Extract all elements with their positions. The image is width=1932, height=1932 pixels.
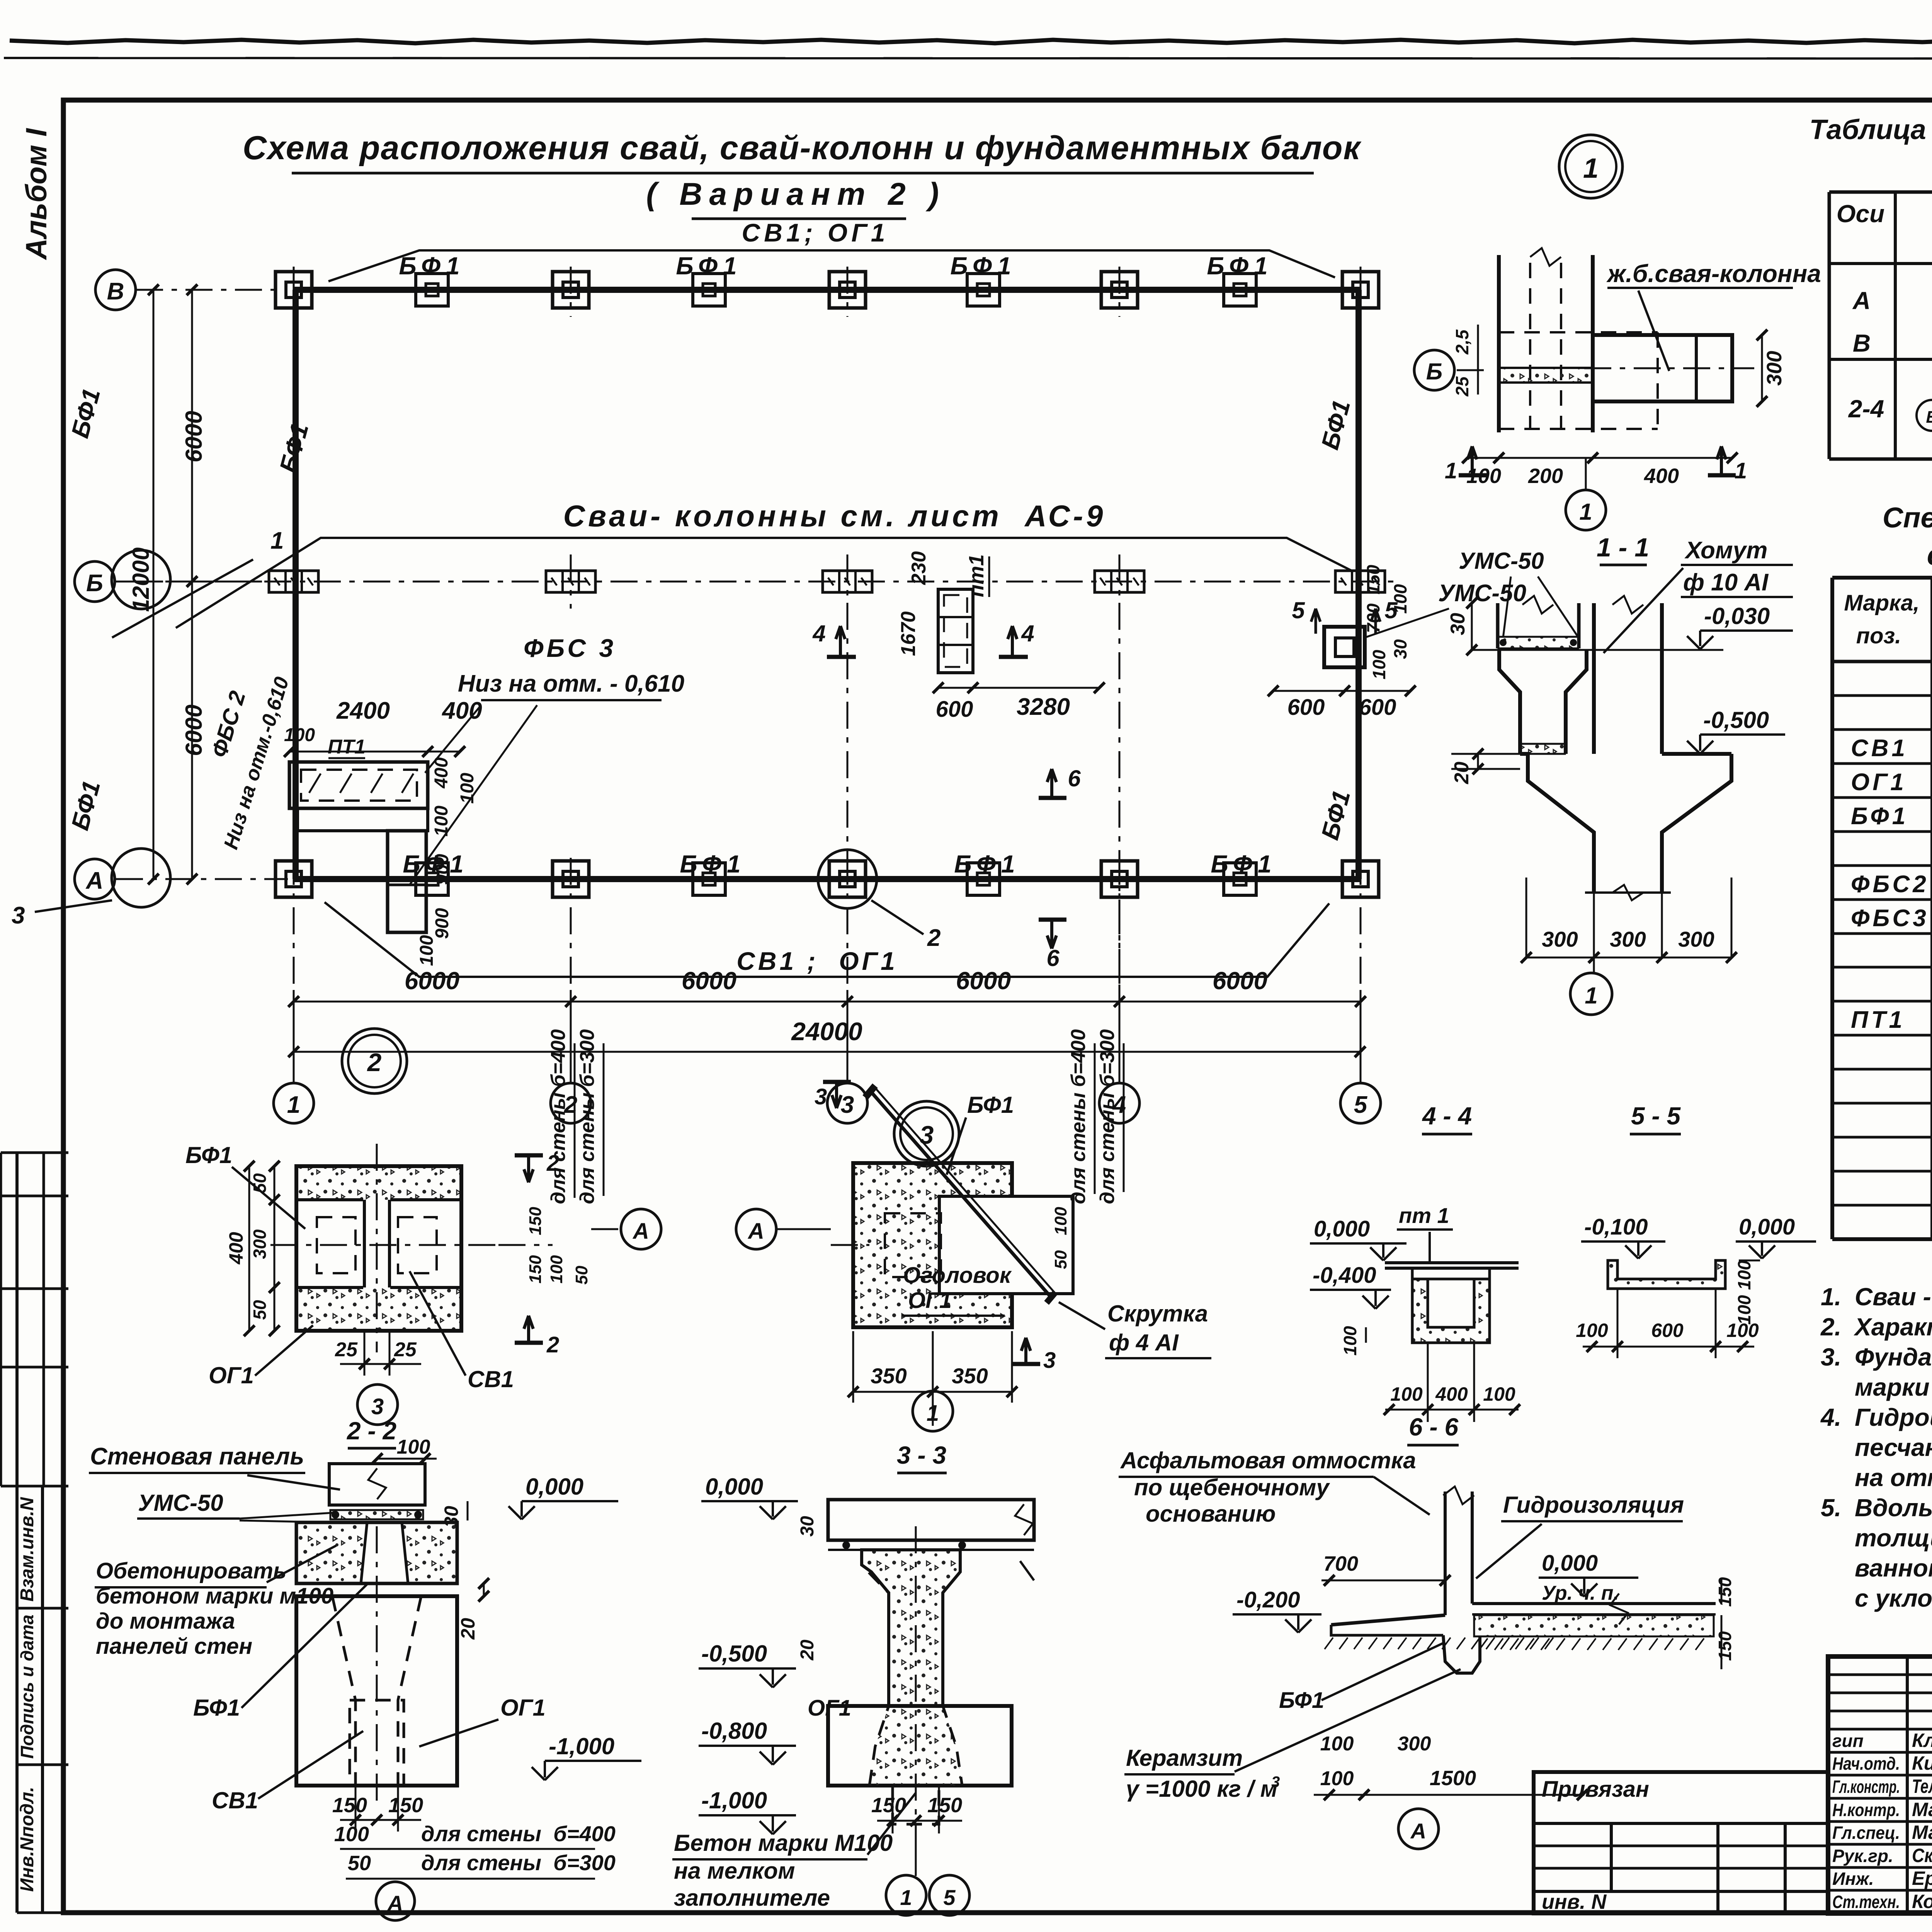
svg-text:ОГ1: ОГ1 — [500, 1695, 546, 1721]
svg-text:Низ на отм. - 0,610: Низ на отм. - 0,610 — [458, 670, 684, 697]
svg-text:А: А — [747, 1219, 764, 1244]
svg-text:900: 900 — [432, 854, 452, 885]
svg-text:Б: Б — [1926, 408, 1932, 427]
svg-text:0,000: 0,000 — [526, 1474, 583, 1500]
svg-text:ОГ1: ОГ1 — [1851, 769, 1907, 796]
svg-text:25: 25 — [335, 1338, 358, 1361]
svg-text:А: А — [85, 867, 104, 894]
svg-text:150: 150 — [526, 1207, 545, 1235]
svg-text:20: 20 — [457, 1618, 479, 1640]
svg-text:2: 2 — [927, 925, 940, 951]
svg-text:1670: 1670 — [897, 611, 920, 656]
svg-text:гип: гип — [1832, 1731, 1864, 1751]
svg-text:Клейн: Клейн — [1912, 1730, 1932, 1751]
svg-text:с уклоном 0 , 03 .: с уклоном 0 , 03 . — [1855, 1584, 1932, 1612]
svg-text:300: 300 — [1763, 351, 1786, 386]
svg-text:50: 50 — [1051, 1250, 1070, 1269]
svg-text:100: 100 — [1320, 1733, 1354, 1755]
svg-text:Сваи- колонны см. лист АС-9: Сваи- колонны см. лист АС-9 — [563, 499, 1106, 533]
svg-text:150: 150 — [1715, 1577, 1735, 1607]
svg-text:БФ1: БФ1 — [680, 850, 746, 878]
svg-text:5 - 5: 5 - 5 — [1631, 1102, 1681, 1130]
svg-text:Марков: Марков — [1912, 1799, 1932, 1820]
svg-text:Нач.отд.: Нач.отд. — [1832, 1753, 1900, 1774]
svg-text:30: 30 — [1390, 639, 1410, 659]
svg-text:150: 150 — [871, 1794, 906, 1817]
svg-text:БФ1: БФ1 — [967, 1092, 1014, 1118]
svg-text:5: 5 — [943, 1885, 956, 1910]
svg-text:24000: 24000 — [791, 1017, 862, 1046]
svg-text:4.: 4. — [1820, 1403, 1841, 1431]
svg-text:Альбом I: Альбом I — [20, 128, 53, 260]
svg-text:Инж.: Инж. — [1832, 1869, 1874, 1889]
svg-text:марки 50 , толщиной 20 мм.: марки 50 , толщиной 20 мм. — [1855, 1373, 1932, 1401]
svg-text:100: 100 — [1726, 1320, 1759, 1341]
svg-text:150: 150 — [927, 1794, 962, 1817]
svg-text:Подпись и дата: Подпись и дата — [17, 1615, 37, 1759]
svg-text:100: 100 — [1390, 1383, 1423, 1405]
svg-text:20: 20 — [797, 1639, 818, 1661]
svg-text:БФ1: БФ1 — [1211, 850, 1277, 878]
svg-text:100: 100 — [284, 725, 315, 745]
svg-text:Гл.спец.: Гл.спец. — [1832, 1823, 1900, 1843]
svg-text:Спецификация элементов к схе: Спецификация элементов к схеме расположе… — [1883, 502, 1932, 534]
svg-text:Схема расположения свай, свай-: Схема расположения свай, свай-колонн и ф… — [243, 129, 1362, 167]
svg-text:300: 300 — [1678, 927, 1714, 951]
svg-text:150: 150 — [332, 1794, 367, 1817]
svg-text:1: 1 — [1735, 458, 1747, 483]
svg-text:ПТ1: ПТ1 — [328, 736, 366, 758]
svg-text:Оголовок: Оголовок — [903, 1263, 1012, 1288]
svg-text:50: 50 — [250, 1300, 270, 1320]
svg-text:3: 3 — [1043, 1348, 1056, 1373]
svg-text:6000: 6000 — [1213, 967, 1267, 995]
svg-text:Гидроизоляцию для панелей выпо: Гидроизоляцию для панелей выполнить из с… — [1855, 1403, 1932, 1431]
svg-text:2400: 2400 — [336, 697, 390, 724]
svg-text:4: 4 — [812, 621, 825, 646]
svg-text:Б: Б — [86, 570, 103, 597]
svg-text:Н.контр.: Н.контр. — [1832, 1800, 1900, 1820]
svg-text:3: 3 — [841, 1092, 854, 1118]
svg-text:100: 100 — [334, 1823, 369, 1846]
svg-text:600: 600 — [1651, 1320, 1684, 1341]
svg-text:2-4: 2-4 — [1848, 395, 1884, 423]
svg-text:ОГ1: ОГ1 — [808, 1696, 851, 1721]
svg-text:150: 150 — [1715, 1631, 1735, 1661]
svg-text:300: 300 — [1542, 927, 1578, 951]
svg-text:УМС-50: УМС-50 — [1438, 580, 1526, 607]
svg-text:6000: 6000 — [181, 704, 207, 756]
svg-text:4: 4 — [1021, 621, 1034, 646]
svg-text:20: 20 — [1451, 762, 1473, 784]
svg-text:свай, свай-колонн и фундамен: свай, свай-колонн и фундаментных балок — [1927, 539, 1932, 571]
svg-text:СВ1: СВ1 — [1851, 735, 1908, 762]
svg-text:Гл.констр.: Гл.констр. — [1832, 1777, 1900, 1797]
svg-text:5.: 5. — [1821, 1494, 1841, 1522]
svg-text:В: В — [1853, 329, 1871, 357]
svg-text:1: 1 — [1579, 499, 1592, 525]
svg-text:на мелком: на мелком — [674, 1858, 795, 1884]
svg-text:100: 100 — [1369, 650, 1389, 679]
svg-text:БФ1: БФ1 — [1279, 1688, 1324, 1713]
svg-text:А: А — [387, 1891, 403, 1915]
svg-text:3: 3 — [1271, 1774, 1280, 1791]
svg-text:Б: Б — [1426, 359, 1442, 384]
svg-text:150: 150 — [526, 1255, 545, 1284]
svg-text:100: 100 — [1340, 1326, 1360, 1355]
svg-text:Привязан: Привязан — [1542, 1777, 1649, 1802]
svg-text:-0,100: -0,100 — [1584, 1214, 1648, 1240]
svg-text:0,000: 0,000 — [1314, 1216, 1370, 1242]
svg-text:ПТ1: ПТ1 — [1851, 1007, 1905, 1033]
svg-text:Коптева: Коптева — [1912, 1891, 1932, 1912]
svg-text:6000: 6000 — [682, 967, 736, 995]
svg-text:2: 2 — [367, 1048, 382, 1077]
svg-text:Теляковский: Теляковский — [1912, 1776, 1932, 1797]
svg-text:БФ1: БФ1 — [399, 252, 465, 280]
svg-text:СВ1: СВ1 — [212, 1787, 258, 1813]
svg-text:25: 25 — [394, 1338, 417, 1361]
svg-text:основанию: основанию — [1146, 1501, 1276, 1527]
svg-text:Обетонировать: Обетонировать — [96, 1558, 286, 1583]
svg-text:Ст.техн.: Ст.техн. — [1832, 1892, 1900, 1912]
svg-text:50: 50 — [572, 1265, 591, 1284]
svg-text:Инв.Nподл.: Инв.Nподл. — [17, 1787, 37, 1892]
svg-text:1: 1 — [1445, 458, 1457, 483]
svg-text:100: 100 — [1390, 584, 1410, 614]
svg-text:ванном щебеночном основании: ванном щебеночном основании толщиной 100… — [1855, 1554, 1932, 1582]
svg-text:ФБС 3: ФБС 3 — [524, 634, 616, 662]
svg-text:6000: 6000 — [956, 967, 1011, 995]
svg-text:3: 3 — [920, 1121, 934, 1149]
svg-text:5: 5 — [1292, 597, 1305, 623]
svg-text:100: 100 — [457, 773, 478, 804]
svg-text:Ермакова: Ермакова — [1912, 1867, 1932, 1889]
svg-text:600: 600 — [936, 697, 973, 722]
svg-text:бетоном марки м100: бетоном марки м100 — [96, 1583, 333, 1609]
svg-text:Хомут: Хомут — [1684, 537, 1767, 564]
svg-text:Гидроизоляция: Гидроизоляция — [1503, 1492, 1684, 1518]
svg-text:В: В — [107, 278, 124, 305]
svg-text:ф 4 АI: ф 4 АI — [1109, 1330, 1179, 1355]
svg-text:по щебеночному: по щебеночному — [1134, 1475, 1330, 1500]
svg-text:100: 100 — [1483, 1383, 1515, 1405]
svg-text:Марков: Марков — [1912, 1821, 1932, 1843]
svg-text:2.: 2. — [1820, 1313, 1841, 1341]
svg-text:600: 600 — [1359, 695, 1396, 720]
svg-text:100: 100 — [417, 935, 437, 966]
svg-text:100: 100 — [1734, 1260, 1754, 1290]
svg-text:200: 200 — [1528, 464, 1563, 488]
svg-text:3 - 3: 3 - 3 — [897, 1441, 946, 1469]
svg-text:Скобликов: Скобликов — [1912, 1845, 1932, 1866]
svg-text:150: 150 — [1363, 565, 1383, 594]
svg-text:Сваи - колонны см. лист АС -: Сваи - колонны см. лист АС - 9 . — [1855, 1283, 1932, 1311]
svg-text:пт 1: пт 1 — [1399, 1203, 1449, 1228]
svg-text:3: 3 — [815, 1084, 827, 1109]
svg-text:БФ1: БФ1 — [193, 1695, 240, 1721]
svg-text:0,000: 0,000 — [1542, 1551, 1598, 1576]
svg-text:песчаного раствора марки 100 с: песчаного раствора марки 100 состава 1 :… — [1855, 1434, 1932, 1461]
svg-text:12000: 12000 — [128, 548, 154, 612]
svg-text:для стены б=300: для стены б=300 — [1096, 1029, 1119, 1204]
svg-text:-0,400: -0,400 — [1313, 1263, 1376, 1288]
svg-text:ФБС2: ФБС2 — [1851, 871, 1929, 898]
svg-text:100: 100 — [1320, 1767, 1354, 1790]
svg-text:230: 230 — [908, 551, 930, 585]
svg-text:Характеристики грунта основани: Характеристики грунта основания даны на … — [1854, 1313, 1932, 1341]
svg-text:Взам.инв.N: Взам.инв.N — [17, 1497, 37, 1602]
svg-text:3: 3 — [12, 902, 25, 929]
svg-text:1: 1 — [1585, 983, 1597, 1009]
svg-text:50: 50 — [348, 1852, 371, 1875]
svg-text:Керамзит: Керамзит — [1126, 1745, 1243, 1771]
svg-text:400: 400 — [1435, 1383, 1468, 1405]
svg-text:30: 30 — [797, 1516, 818, 1537]
svg-text:( Вариант 2 ): ( Вариант 2 ) — [646, 177, 946, 212]
svg-text:пт1: пт1 — [965, 554, 988, 597]
svg-text:300: 300 — [250, 1229, 270, 1259]
svg-text:100: 100 — [431, 806, 452, 837]
svg-text:2,5: 2,5 — [1452, 329, 1472, 355]
svg-text:БФ1: БФ1 — [950, 252, 1016, 280]
svg-text:БФ1: БФ1 — [676, 252, 742, 280]
svg-text:400: 400 — [1644, 464, 1679, 488]
svg-text:поз.: поз. — [1856, 623, 1901, 648]
svg-text:γ =1000 кг / м: γ =1000 кг / м — [1126, 1776, 1277, 1802]
svg-text:3.: 3. — [1821, 1343, 1841, 1371]
svg-text:3280: 3280 — [1017, 694, 1070, 720]
svg-text:СВ1: СВ1 — [468, 1366, 514, 1392]
svg-text:до монтажа: до монтажа — [96, 1609, 235, 1634]
svg-text:600: 600 — [1287, 695, 1325, 720]
svg-text:БФ1: БФ1 — [954, 850, 1020, 878]
svg-text:Стеновая панель: Стеновая панель — [90, 1443, 304, 1470]
svg-text:СВ1 ; ОГ1: СВ1 ; ОГ1 — [736, 947, 898, 975]
svg-text:для стены б=400: для стены б=400 — [1067, 1029, 1090, 1204]
svg-text:Вдоль наружных стен устроить: Вдоль наружных стен устроить асфальтовую… — [1855, 1494, 1932, 1522]
svg-text:0,000: 0,000 — [705, 1474, 763, 1500]
svg-text:300: 300 — [1398, 1733, 1431, 1755]
svg-text:25: 25 — [1452, 376, 1472, 397]
svg-text:300: 300 — [1610, 927, 1646, 951]
svg-text:Фундаментные балки укладывать: Фундаментные балки укладывать на цементн… — [1855, 1343, 1932, 1371]
svg-text:350: 350 — [952, 1364, 988, 1388]
svg-text:А: А — [1410, 1819, 1426, 1843]
svg-text:инв. N: инв. N — [1542, 1890, 1607, 1913]
svg-text:ОГ1: ОГ1 — [908, 1288, 952, 1313]
svg-text:100: 100 — [547, 1255, 566, 1284]
svg-text:100: 100 — [1576, 1320, 1608, 1341]
svg-text:ФБС3: ФБС3 — [1851, 905, 1929, 932]
svg-text:заполнителе: заполнителе — [674, 1885, 830, 1911]
svg-text:6: 6 — [1068, 765, 1081, 791]
svg-text:1: 1 — [927, 1401, 939, 1426]
svg-text:0,000: 0,000 — [1739, 1214, 1795, 1240]
svg-text:2 - 2: 2 - 2 — [347, 1417, 396, 1445]
svg-text:1.: 1. — [1821, 1283, 1841, 1311]
svg-text:100: 100 — [397, 1436, 430, 1458]
svg-text:-0,200: -0,200 — [1236, 1587, 1300, 1612]
svg-text:БФ1: БФ1 — [1207, 252, 1273, 280]
svg-text:панелей стен: панелей стен — [96, 1634, 252, 1659]
svg-text:Ким: Ким — [1912, 1752, 1932, 1774]
svg-text:6000: 6000 — [405, 967, 459, 995]
svg-text:Бетон марки М100: Бетон марки М100 — [674, 1830, 893, 1856]
svg-text:1: 1 — [270, 527, 284, 554]
svg-text:для стены б=400: для стены б=400 — [421, 1821, 616, 1846]
svg-text:-1,000: -1,000 — [549, 1733, 614, 1759]
svg-text:БФ1: БФ1 — [185, 1142, 232, 1168]
svg-text:БФ1: БФ1 — [1851, 803, 1908, 830]
svg-text:700: 700 — [1363, 603, 1383, 633]
svg-text:-0,500: -0,500 — [701, 1641, 767, 1667]
svg-text:150: 150 — [388, 1794, 423, 1817]
svg-text:5: 5 — [1354, 1092, 1368, 1118]
svg-text:Рук.гр.: Рук.гр. — [1832, 1846, 1893, 1866]
svg-text:900: 900 — [432, 908, 452, 939]
svg-text:ОГ1: ОГ1 — [209, 1362, 254, 1388]
svg-text:Скрутка: Скрутка — [1107, 1301, 1208, 1327]
svg-text:для стены б=400: для стены б=400 — [547, 1029, 570, 1204]
svg-text:100: 100 — [1051, 1207, 1070, 1235]
svg-text:400: 400 — [225, 1232, 247, 1265]
svg-text:30: 30 — [1447, 613, 1469, 635]
svg-text:Таблица расчетных нагрузок на: Таблица расчетных нагрузок на верхний об… — [1810, 114, 1932, 145]
svg-text:А: А — [632, 1219, 649, 1244]
svg-text:СВ1; ОГ1: СВ1; ОГ1 — [742, 218, 889, 247]
svg-text:УМС-50: УМС-50 — [1459, 548, 1544, 574]
svg-text:ф 10 АI: ф 10 АI — [1683, 569, 1769, 596]
svg-text:-0,500: -0,500 — [1703, 707, 1769, 733]
svg-text:-0,030: -0,030 — [1704, 603, 1770, 629]
svg-text:400: 400 — [431, 757, 452, 789]
svg-text:700: 700 — [1323, 1552, 1358, 1575]
svg-text:ж.б.свая-колонна: ж.б.свая-колонна — [1606, 260, 1821, 287]
svg-text:350: 350 — [871, 1364, 906, 1388]
svg-text:1 - 1: 1 - 1 — [1597, 533, 1649, 562]
svg-text:1: 1 — [900, 1885, 912, 1910]
svg-text:толщиной 20 мм , шириной 700: толщиной 20 мм , шириной 700 мм на плотн… — [1855, 1524, 1932, 1552]
svg-text:-0,800: -0,800 — [701, 1718, 767, 1744]
svg-text:6 - 6: 6 - 6 — [1409, 1413, 1458, 1441]
svg-text:6000: 6000 — [181, 411, 207, 462]
svg-text:1: 1 — [1583, 153, 1599, 184]
svg-text:для стены б=300: для стены б=300 — [421, 1850, 616, 1875]
svg-text:Асфальтовая отмостка: Асфальтовая отмостка — [1120, 1447, 1416, 1473]
svg-text:УМС-50: УМС-50 — [138, 1490, 223, 1516]
svg-text:для стены б=300: для стены б=300 — [576, 1029, 599, 1204]
svg-text:Марка,: Марка, — [1844, 590, 1919, 616]
svg-text:-1,000: -1,000 — [701, 1787, 767, 1813]
svg-text:1: 1 — [287, 1092, 300, 1118]
svg-text:3: 3 — [371, 1394, 384, 1419]
svg-text:4 - 4: 4 - 4 — [1422, 1102, 1472, 1130]
svg-text:А: А — [1852, 287, 1871, 315]
svg-text:на отм. - 0,030 с гидрофобными: на отм. - 0,030 с гидрофобными добавками… — [1855, 1464, 1932, 1492]
svg-text:2: 2 — [546, 1332, 559, 1357]
svg-text:Оси: Оси — [1837, 200, 1884, 228]
svg-text:1500: 1500 — [1430, 1767, 1476, 1790]
